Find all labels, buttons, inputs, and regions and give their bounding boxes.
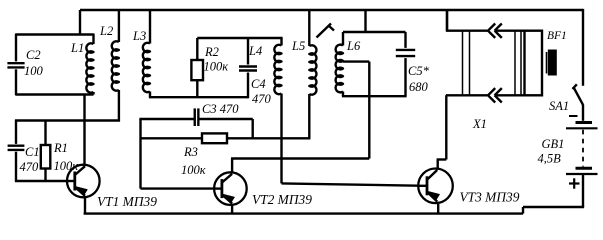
resistor R3 — [141, 133, 311, 143]
wire VT1 collector — [83, 95, 85, 166]
label VT2 МП39 — [252, 192, 312, 207]
battery GB1 cell2 — [566, 168, 598, 174]
svg-text:SA1: SA1 — [549, 99, 569, 113]
wire battery to bottom rail — [582, 174, 584, 207]
svg-text:R1: R1 — [53, 141, 68, 155]
label R1 — [53, 141, 68, 155]
label GB1 value 4,5В — [538, 152, 562, 166]
label C4 value 470 — [252, 92, 272, 106]
svg-text:BF1: BF1 — [547, 30, 567, 42]
connector cord pair 2 — [515, 31, 521, 96]
inductor L4 — [274, 38, 281, 138]
inductor L2 — [112, 10, 119, 122]
switch SA1 — [573, 84, 584, 105]
svg-text:VT3 МП39: VT3 МП39 — [460, 190, 520, 205]
label C3 470 — [202, 102, 239, 116]
connector cord pair 1 — [463, 31, 470, 96]
label C4 — [251, 77, 266, 91]
svg-text:470: 470 — [20, 160, 40, 174]
label C2 — [26, 48, 41, 62]
inductor L1 — [86, 34, 93, 95]
wire L6C5 box top edge — [343, 31, 406, 33]
label C5* — [408, 64, 430, 78]
svg-text:GB1: GB1 — [542, 137, 565, 151]
svg-text:C1: C1 — [25, 145, 40, 159]
label L4 — [248, 44, 262, 58]
label L5 — [291, 39, 305, 53]
label VT3 МП39 — [460, 190, 520, 205]
resistor R1 — [41, 121, 51, 182]
label L6 — [346, 39, 361, 53]
svg-text:4,5В: 4,5В — [538, 152, 562, 166]
wire VT1 base line — [15, 180, 67, 182]
label L1 — [70, 41, 84, 55]
svg-text:L6: L6 — [346, 39, 361, 53]
wire C1 left leg — [15, 121, 17, 182]
wire switch to battery — [582, 105, 584, 121]
svg-text:C3 470: C3 470 — [202, 102, 239, 116]
wire R2C4 box top edge — [197, 37, 282, 39]
svg-text:C4: C4 — [251, 77, 266, 91]
wire R2C4 box bottom edge from L3 — [149, 96, 248, 98]
capacitor C4 — [239, 38, 257, 98]
capacitor C1 — [8, 146, 25, 150]
transistor VT1 — [67, 165, 100, 198]
capacitor C5 — [396, 32, 415, 96]
label VT1 МП39 — [97, 194, 157, 209]
wire L4 bottom to VT3 base vertical — [282, 138, 419, 185]
label C5 value 680 — [409, 80, 429, 94]
svg-text:R2: R2 — [204, 45, 219, 59]
svg-text:L5: L5 — [291, 39, 305, 53]
svg-text:VT1 МП39: VT1 МП39 — [97, 194, 157, 209]
svg-text:VT2 МП39: VT2 МП39 — [252, 192, 312, 207]
svg-text:L4: L4 — [248, 44, 262, 58]
wire VT1 emitter to rail — [84, 196, 86, 213]
label X1 — [472, 117, 487, 131]
resistor R2 — [191, 38, 203, 97]
transistor VT2 — [214, 172, 247, 205]
label R3 — [183, 145, 198, 159]
label R2 — [204, 45, 219, 59]
svg-text:100к: 100к — [181, 163, 206, 177]
wire feed rail to L6C5 box — [364, 10, 366, 32]
earphone BF1 — [525, 31, 557, 96]
wire X1 bottom line — [446, 10, 525, 95]
label R1 value 100к — [54, 159, 79, 173]
wire tank box left/top/bottom edges C2-L1 — [16, 35, 94, 95]
wire VT3 emitter — [437, 202, 439, 214]
label R2 value 100к — [204, 60, 229, 74]
wire VT2 collector to L6 tap — [231, 62, 369, 174]
svg-text:470: 470 — [252, 92, 272, 106]
svg-text:C2: C2 — [26, 48, 41, 62]
label SA1 — [549, 99, 569, 113]
svg-text:C5*: C5* — [408, 64, 430, 78]
tuning core arrow — [317, 24, 335, 38]
wire VT3 collector — [437, 95, 447, 170]
battery GB1 cell1 — [566, 123, 598, 129]
label GB1 — [542, 137, 565, 151]
inductor L5 — [309, 10, 316, 138]
transistor VT3 — [418, 169, 453, 204]
label battery plus — [569, 178, 580, 188]
wire bottom rail — [84, 207, 584, 214]
label L2 — [99, 24, 113, 38]
connector X1 bottom contacts — [488, 88, 502, 102]
wire VT2 base vertical — [141, 119, 215, 189]
connector X1 top contacts — [488, 24, 502, 38]
label battery minus — [569, 115, 578, 117]
svg-text:100: 100 — [24, 64, 44, 78]
wire battery internal (dashed) — [582, 130, 584, 167]
wire feed from rail to tank top — [79, 10, 81, 36]
svg-text:L1: L1 — [70, 41, 84, 55]
svg-text:L3: L3 — [132, 29, 146, 43]
label C2 value 100 — [24, 64, 44, 78]
svg-text:680: 680 — [409, 80, 429, 94]
wire VT2 emitter — [231, 204, 233, 214]
wire L6C5 box bottom edge — [342, 95, 407, 97]
label L3 — [132, 29, 146, 43]
inductor L3 — [143, 10, 150, 97]
inductor L6 — [336, 32, 343, 96]
wire L6 tap — [343, 60, 369, 62]
label R3 value 100к — [181, 163, 206, 177]
svg-text:R3: R3 — [183, 145, 198, 159]
wire right drop from rail — [582, 9, 584, 86]
svg-text:X1: X1 — [472, 117, 487, 131]
label C1 value 470 — [20, 160, 40, 174]
capacitor C2 — [7, 63, 24, 67]
capacitor C3 — [139, 108, 252, 138]
label BF1 — [547, 30, 567, 42]
wire top supply rail — [80, 9, 583, 11]
svg-text:L2: L2 — [99, 24, 113, 38]
wire X1 top line — [446, 10, 525, 31]
label C1 — [25, 145, 40, 159]
wire node base bias VT1 (C1,R1 top to L2 bottom) — [15, 119, 120, 121]
svg-text:100к: 100к — [204, 60, 229, 74]
